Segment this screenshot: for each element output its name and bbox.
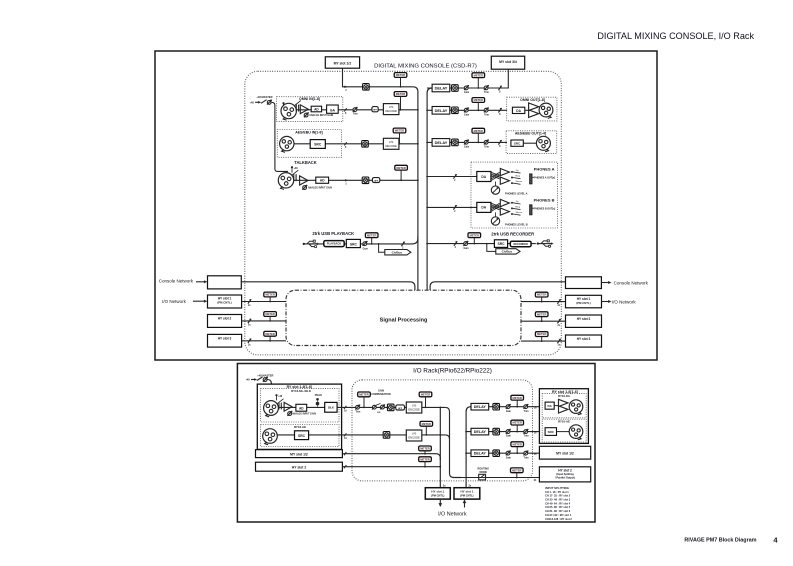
meter HY slot 1 right	[535, 292, 548, 297]
svg-text:SRC: SRC	[498, 242, 506, 246]
box AD OMNI IN	[311, 106, 321, 112]
wire USB playback row	[309, 236, 418, 244]
svg-text:PHONES LEVEL A: PHONES LEVEL A	[505, 192, 528, 196]
svg-text:DIGITAL MIXING CONSOLE (CSD-R: DIGITAL MIXING CONSOLE (CSD-R7)	[374, 63, 477, 69]
svg-text:METER: METER	[537, 332, 546, 336]
box DA phones A	[477, 172, 491, 182]
box DELAY	[432, 107, 450, 115]
svg-text:I/O Network: I/O Network	[612, 300, 637, 305]
wire AES/EBU IN row	[294, 143, 418, 145]
svg-text:I/O Rack(RPio622/RPio222): I/O Rack(RPio622/RPio222)	[413, 368, 492, 375]
amplifier driver OMNI OUT -	[529, 110, 539, 118]
svg-text:RY16-AE: RY16-AE	[294, 425, 306, 429]
wire output row OMNI OUT	[427, 109, 507, 111]
wire meter drop OMNI IN	[400, 96, 402, 109]
svg-text:I/O Network: I/O Network	[438, 511, 467, 517]
XLR connector AES/EBU IN	[280, 136, 294, 150]
wire DA to drivers	[525, 109, 529, 111]
wire meter drop RY-ML out	[425, 397, 427, 408]
box HY slot 3 left	[208, 334, 242, 347]
svg-text:METER: METER	[470, 233, 479, 237]
pot Gain AES/EBU OUT	[464, 140, 468, 144]
svg-text:CH113-128 : MY slot 2: CH113-128 : MY slot 2	[545, 517, 572, 521]
svg-text:MY slot 1/2: MY slot 1/2	[556, 451, 574, 455]
svg-text:MY slot 1/2: MY slot 1/2	[334, 61, 352, 65]
bus-width slash	[453, 205, 456, 209]
svg-text:Gain: Gain	[464, 92, 470, 94]
XLR connector OMNI IN	[281, 103, 296, 118]
box MY slot 1/2 rack right	[539, 446, 590, 459]
wire OMNI IN row	[297, 109, 418, 111]
svg-text:METER: METER	[474, 73, 483, 77]
wire routing row to HY slot 2 out	[461, 477, 539, 479]
pot Gain to MY slots	[464, 86, 468, 90]
svg-text:MY slot 3/4: MY slot 3/4	[499, 60, 517, 64]
svg-text:METER: METER	[512, 421, 521, 425]
arrow I/O network left	[193, 300, 205, 302]
svg-text:2trk USB PLAYBACK: 2trk USB PLAYBACK	[312, 231, 354, 236]
svg-text:RY16-AE: RY16-AE	[558, 420, 570, 424]
wire meter drop AES IN	[399, 133, 401, 144]
input transformer talkback	[293, 174, 295, 181]
meter RY-DA out	[511, 395, 524, 400]
wire RY-AE row	[277, 434, 445, 436]
svg-text:METER: METER	[265, 312, 274, 316]
dotted group RY16-DA	[542, 394, 586, 418]
flag Ch/Bus	[496, 249, 520, 254]
wire MY rack row	[342, 454, 440, 460]
wire meter drop OMNI OUT	[477, 102, 479, 110]
I/O rack outer frame	[237, 364, 595, 523]
meter HY slot 2 left	[264, 312, 277, 317]
svg-text:METER: METER	[396, 73, 405, 77]
pot talkback gain	[303, 186, 307, 190]
amplifier phones B amp R	[500, 208, 509, 215]
svg-text:METER: METER	[420, 447, 429, 451]
svg-text:Gain: Gain	[464, 115, 470, 117]
box HY slot 2 rack left	[256, 462, 343, 471]
wire meter drop recorder	[473, 238, 475, 244]
svg-text:DELAY: DELAY	[474, 430, 487, 434]
crossed-circle box OMNI OUT	[452, 107, 459, 114]
crossed-circle box AES/EBU OUT	[452, 139, 459, 146]
svg-text:Sleeve: Sleeve	[516, 181, 523, 183]
svg-text:+48 MASTER: +48 MASTER	[256, 95, 272, 99]
phantom feed dot OMNI IN	[282, 102, 284, 104]
svg-text:Console Network: Console Network	[614, 281, 649, 286]
box HY slot 1 PM CNTL left	[425, 488, 450, 499]
pot phones level A	[491, 186, 499, 194]
svg-text:CH 49- 64 : RY slot 4: CH 49- 64 : RY slot 4	[545, 501, 571, 505]
svg-text:COMPENSATION: COMPENSATION	[371, 393, 391, 396]
svg-text:HY slot 3: HY slot 3	[577, 337, 591, 341]
wire DA to drivers RY	[554, 405, 558, 407]
box DA OMNI OUT	[512, 107, 524, 113]
input transformer RY	[278, 403, 280, 410]
svg-text:Gain: Gain	[506, 457, 512, 459]
wire TALKBACK row	[294, 179, 418, 181]
svg-text:PHONES LEVEL B: PHONES LEVEL B	[505, 222, 528, 226]
output bus vertical	[427, 88, 432, 290]
bus-width slash	[557, 299, 560, 303]
input bus 2 rack	[445, 407, 461, 477]
svg-text:HY slot 1: HY slot 1	[461, 489, 474, 493]
box SRC RY-AE	[295, 431, 309, 440]
svg-text:DELAY: DELAY	[474, 452, 487, 456]
meter MY rack	[419, 446, 432, 451]
box SRC AES out	[511, 140, 523, 146]
crossed-circle box RY-DA out	[493, 403, 500, 410]
box DA phones B	[477, 202, 491, 212]
box RY slot output	[539, 389, 588, 444]
svg-text:METER: METER	[421, 393, 430, 397]
svg-text:AES/EBU OUT[1-4]: AES/EBU OUT[1-4]	[515, 132, 546, 136]
svg-text:PHONES B OUT[x]: PHONES B OUT[x]	[534, 207, 555, 210]
svg-text:AES/EBU IN[1-8]: AES/EBU IN[1-8]	[295, 130, 322, 134]
fanout phones A	[491, 172, 499, 175]
svg-text:METER: METER	[265, 332, 274, 336]
XLR connector OMNI OUT	[539, 103, 553, 117]
XLR connector RY analog out	[569, 400, 583, 414]
svg-text:(PM CNTL): (PM CNTL)	[217, 301, 231, 305]
pot Trim AES/EBU OUT	[484, 140, 488, 144]
wire phones B feed	[427, 206, 477, 208]
USB connector recorder	[537, 242, 539, 244]
svg-text:SILK: SILK	[328, 406, 334, 410]
svg-text:PHONES A: PHONES A	[534, 167, 555, 172]
bus-width slash	[453, 174, 456, 178]
box MY slot 1/2 rack left	[256, 450, 343, 458]
svg-text:METER: METER	[359, 393, 368, 397]
bus-width slash	[248, 339, 251, 343]
input bus vertical	[413, 87, 418, 290]
box SRC AES in	[310, 140, 325, 149]
svg-text:CH 65- 80 : RY slot 5: CH 65- 80 : RY slot 5	[545, 505, 571, 509]
svg-text:Gain: Gain	[506, 436, 512, 438]
XLR connector RY AES input	[263, 429, 278, 444]
svg-text:INPUT SPLITTING: INPUT SPLITTING	[545, 486, 569, 490]
amplifier head amp RY	[284, 402, 292, 411]
svg-text:Trim: Trim	[355, 412, 360, 414]
svg-text:Signal Processing: Signal Processing	[380, 317, 428, 323]
svg-text:ANALOG INPUT GAIN: ANALOG INPUT GAIN	[308, 187, 332, 190]
box DELAY MY out	[471, 450, 489, 457]
box SILK RY	[325, 402, 337, 412]
crossed-circle box MY in	[363, 84, 370, 91]
svg-text:/ Parallel Output): / Parallel Output)	[555, 477, 575, 480]
svg-text:METER: METER	[512, 468, 521, 472]
svg-text:METER: METER	[396, 92, 405, 96]
wire meter drop to MY slots	[477, 78, 479, 88]
svg-text:DA: DA	[481, 206, 486, 210]
contacts phones A	[511, 171, 513, 173]
XLR connector RY mic input	[264, 401, 279, 416]
meter USB recorder	[468, 233, 481, 238]
input bus 1 rack	[439, 407, 441, 487]
box GA OMNI IN	[327, 105, 339, 113]
svg-text:SRC: SRC	[514, 142, 521, 146]
bus-width slash	[557, 319, 560, 323]
wire MY slot 1/2 to input bus	[343, 68, 413, 87]
wire HY2 rack row	[342, 466, 440, 468]
amplifier driver RY out -	[559, 406, 569, 413]
svg-text:CH 97-112 : MY slot 1: CH 97-112 : MY slot 1	[545, 513, 572, 517]
svg-text:(PM CNTL): (PM CNTL)	[460, 493, 473, 497]
amplifier phones A amp R	[500, 177, 509, 184]
svg-text:V/S: V/S	[412, 404, 417, 408]
svg-text:V/S: V/S	[389, 140, 394, 144]
svg-text:DELAY: DELAY	[435, 140, 448, 145]
XLR connector TALKBACK	[278, 173, 293, 188]
meter MY input	[394, 73, 407, 78]
dotted group RY16-AE out	[542, 419, 586, 442]
bus-width slash	[498, 108, 501, 112]
wire meter drop RY-AE out	[425, 426, 427, 435]
box DELAY RY-DA out	[471, 403, 489, 410]
svg-text:AD: AD	[314, 107, 319, 111]
meter RY-ML	[358, 392, 371, 397]
pot Trim RY-AE out	[524, 430, 528, 434]
box MY slot 1/2 top-left	[325, 57, 359, 68]
svg-text:DELAY: DELAY	[474, 405, 487, 409]
box V/S ENCODE RY-AE	[406, 430, 422, 441]
wire meter drop RY-ML	[363, 397, 365, 408]
svg-text:SRC: SRC	[298, 434, 306, 438]
svg-text:RY16-DA: RY16-DA	[558, 394, 570, 398]
svg-text:METER: METER	[422, 422, 431, 426]
svg-text:METER: METER	[265, 293, 274, 297]
svg-text:METER: METER	[395, 129, 404, 133]
svg-text:METER: METER	[420, 457, 429, 461]
wire meter drop AES/EBU OUT	[477, 133, 479, 142]
pot Trim OMNI	[353, 108, 357, 112]
svg-text:V/S: V/S	[412, 432, 417, 436]
pot Gain RY-DA out	[506, 405, 510, 409]
wire meter drop RY-AE out	[516, 425, 518, 432]
meter OMNI OUT	[472, 98, 485, 103]
svg-text:Trim: Trim	[484, 147, 489, 149]
svg-text:Trim: Trim	[524, 457, 529, 459]
svg-text:Ring: Ring	[516, 206, 521, 208]
svg-text:I/O Network: I/O Network	[162, 299, 187, 304]
wire signal processing to HY slot 3 right	[521, 340, 566, 342]
wire meter drop HY2 rack	[424, 462, 426, 467]
output bus rack	[466, 407, 471, 488]
bus-width slash	[498, 140, 501, 144]
svg-text:Ch/Bus: Ch/Bus	[502, 250, 513, 254]
XLR connector RY AES out	[569, 425, 583, 439]
svg-text:METER: METER	[537, 312, 546, 316]
meter OMNI IN	[394, 92, 407, 97]
crossed-circle box talkback	[362, 177, 369, 184]
pot Gain RY-AE out	[506, 430, 510, 434]
box HY slot 2 right	[566, 315, 602, 327]
dotted group OMNI OUT[1-8]	[507, 97, 557, 121]
svg-text:SRC: SRC	[548, 430, 555, 434]
svg-text:METER: METER	[512, 442, 521, 446]
wire +48 feed down to talkback	[272, 102, 288, 171]
box HPF talkback	[372, 178, 379, 183]
dotted group AES/EBU IN[1-8]	[277, 130, 341, 158]
wire meter drop MY input	[400, 77, 402, 86]
box HY slot 1 left	[208, 295, 242, 308]
box HY slot 2 rack right	[539, 467, 590, 482]
pot analog input gain	[304, 113, 308, 117]
svg-text:Ch/Bus: Ch/Bus	[392, 250, 403, 254]
wire SRC to XLR RY out	[557, 431, 570, 433]
svg-text:CH 81- 96 : RY slot 6: CH 81- 96 : RY slot 6	[545, 509, 571, 513]
amplifier phones A amp L	[500, 169, 509, 176]
svg-text:DELAY: DELAY	[435, 108, 448, 113]
svg-text:GA: GA	[330, 108, 336, 112]
crossed-circle box to MY slots	[452, 85, 459, 92]
bus-width slash	[401, 242, 404, 246]
svg-text:ANALOG INPUT GAIN: ANALOG INPUT GAIN	[292, 413, 316, 416]
box HPF OMNI IN	[372, 107, 378, 112]
wire branch to recorder Ch/Bus flag	[487, 244, 496, 252]
meter RY-ML out	[419, 392, 432, 397]
wire signal processing to HY slot 1 right	[521, 301, 566, 303]
dotted group PHONES	[471, 162, 558, 228]
arrow down I/O network out	[439, 499, 441, 503]
svg-text:DECODE: DECODE	[385, 144, 397, 148]
box PLAYBACK	[324, 241, 344, 247]
svg-text:HY slot 2: HY slot 2	[292, 466, 307, 470]
wire signal processing to HY slot 2 right	[521, 320, 566, 322]
svg-text:OMNI IN[1-8]: OMNI IN[1-8]	[299, 97, 320, 101]
pot phones level B	[491, 217, 499, 225]
jack phones B	[530, 205, 532, 215]
svg-text:Gain: Gain	[464, 147, 470, 149]
wire meter drop playback	[371, 238, 373, 244]
jack phones A	[530, 174, 532, 184]
box AD talkback	[316, 177, 329, 183]
svg-text:TALKBACK: TALKBACK	[294, 160, 316, 165]
box SRC playback	[346, 239, 360, 247]
amplifier phones B amp L	[500, 199, 509, 206]
meter RY-AE out	[511, 420, 524, 425]
wire HY slot 1 left to signal processing	[242, 301, 286, 303]
svg-text:Ring: Ring	[516, 176, 521, 178]
meter HY slot 3 left	[264, 331, 277, 336]
svg-text:METER: METER	[474, 129, 483, 133]
phantom dot RY input	[275, 394, 277, 396]
amplifier head amp OMNI IN	[300, 105, 308, 114]
meter AES/EBU IN	[393, 128, 406, 133]
svg-text:RECORDER: RECORDER	[514, 243, 529, 246]
box HY slot 1 PM CNTL right	[454, 488, 480, 499]
svg-text:PHONES A OUT[x]: PHONES A OUT[x]	[534, 177, 555, 180]
wire branch to Ch/Bus flag	[379, 244, 385, 252]
dotted group RY16-ML-SILK	[261, 389, 339, 422]
crossed-circle box RY-AE out	[493, 428, 500, 435]
bus-width slash	[248, 299, 251, 303]
crossed-circle box RY-ML	[387, 404, 394, 411]
box HY slot 3 right	[566, 335, 602, 347]
svg-text:MY slot 1/2: MY slot 1/2	[290, 452, 308, 456]
svg-text:Console Network: Console Network	[159, 279, 194, 284]
pot Gain playback	[363, 242, 367, 246]
svg-text:HY slot 2: HY slot 2	[577, 317, 591, 321]
wire meter drop MY rack	[424, 451, 426, 454]
wire SRC to XLR	[523, 142, 536, 144]
wire meter drop RY-DA out	[516, 400, 518, 407]
dotted group AES/EBU OUT[1-4]	[506, 131, 557, 154]
console dashed enclosure CSD-R7	[245, 71, 562, 355]
XLR connector AES/EBU OUT	[536, 136, 550, 150]
svg-text:ON: ON	[377, 412, 381, 414]
svg-text:SRC: SRC	[314, 143, 322, 147]
crossed-circle box RY-AE	[383, 432, 390, 439]
svg-text:METER: METER	[512, 396, 521, 400]
arrow console network right	[601, 282, 608, 284]
svg-text:METER: METER	[367, 233, 376, 237]
bus-width slash	[248, 319, 251, 323]
box RY slot 1-6 input	[257, 384, 341, 449]
svg-text:ENCODE: ENCODE	[408, 408, 420, 412]
svg-text:CH 33- 48 : RY slot 3: CH 33- 48 : RY slot 3	[545, 498, 571, 502]
wire output row AES/EBU OUT	[427, 141, 507, 143]
svg-text:DA: DA	[481, 175, 486, 179]
svg-text:V/S: V/S	[389, 105, 394, 109]
box HY slot 1 right	[566, 295, 602, 308]
wire rack output row MY out	[466, 452, 539, 454]
box SRC RY out	[545, 428, 556, 436]
svg-text:MODE: MODE	[480, 471, 488, 474]
box HY slot 2 left	[208, 315, 242, 328]
box V/S ENCODE RY-ML	[406, 402, 422, 413]
svg-text:SRC: SRC	[350, 242, 358, 246]
svg-text:HY slot 2: HY slot 2	[218, 317, 232, 321]
wire console network trunk left	[241, 282, 415, 290]
meter HY slot 3 right	[535, 332, 548, 337]
svg-text:RIVAGE PM7 Block Diagram: RIVAGE PM7 Block Diagram	[684, 538, 756, 544]
box console network left	[208, 276, 242, 289]
box DELAY RY-AE out	[471, 428, 489, 435]
wire RY-ML row	[278, 406, 445, 408]
svg-text:Trim: Trim	[524, 436, 529, 438]
meter HY2 rack	[419, 457, 432, 462]
wire output row to MY slots	[427, 87, 508, 89]
input transformer OMNI IN	[295, 105, 297, 112]
meter HY slot 1 left	[264, 292, 277, 297]
pot Gain OMNI OUT	[464, 108, 468, 112]
wire +48 feed to RY input	[267, 380, 271, 397]
svg-text:METER: METER	[537, 293, 546, 297]
arrow console network left	[196, 281, 205, 283]
wire phones A feed	[427, 176, 477, 178]
svg-text:Trim: Trim	[484, 115, 489, 117]
box SRC recorder	[494, 240, 507, 248]
svg-text:PEAK: PEAK	[315, 393, 322, 397]
crossed-circle box AES in	[362, 141, 369, 148]
svg-text:CH 1- 16 : RY slot 1: CH 1- 16 : RY slot 1	[545, 490, 569, 494]
box DELAY	[432, 84, 450, 92]
meter AES/EBU OUT	[472, 128, 485, 133]
svg-text:2trk USB RECORDER: 2trk USB RECORDER	[491, 231, 534, 236]
bus-width slash	[454, 241, 457, 245]
svg-text:CH 17- 32 : RY slot 2: CH 17- 32 : RY slot 2	[545, 494, 571, 498]
pot Trim OMNI OUT	[484, 108, 488, 112]
fanout phones B	[491, 203, 499, 206]
meter routing	[511, 468, 524, 473]
svg-text:HY slot 1: HY slot 1	[431, 489, 444, 493]
box V/S DECODE aes in	[383, 138, 399, 149]
svg-text:RY16-ML-SILK: RY16-ML-SILK	[291, 389, 312, 393]
pot RY analog gain	[288, 412, 292, 416]
box MY slot 3/4 top-right	[491, 56, 524, 69]
svg-text:+48: +48	[250, 102, 255, 105]
